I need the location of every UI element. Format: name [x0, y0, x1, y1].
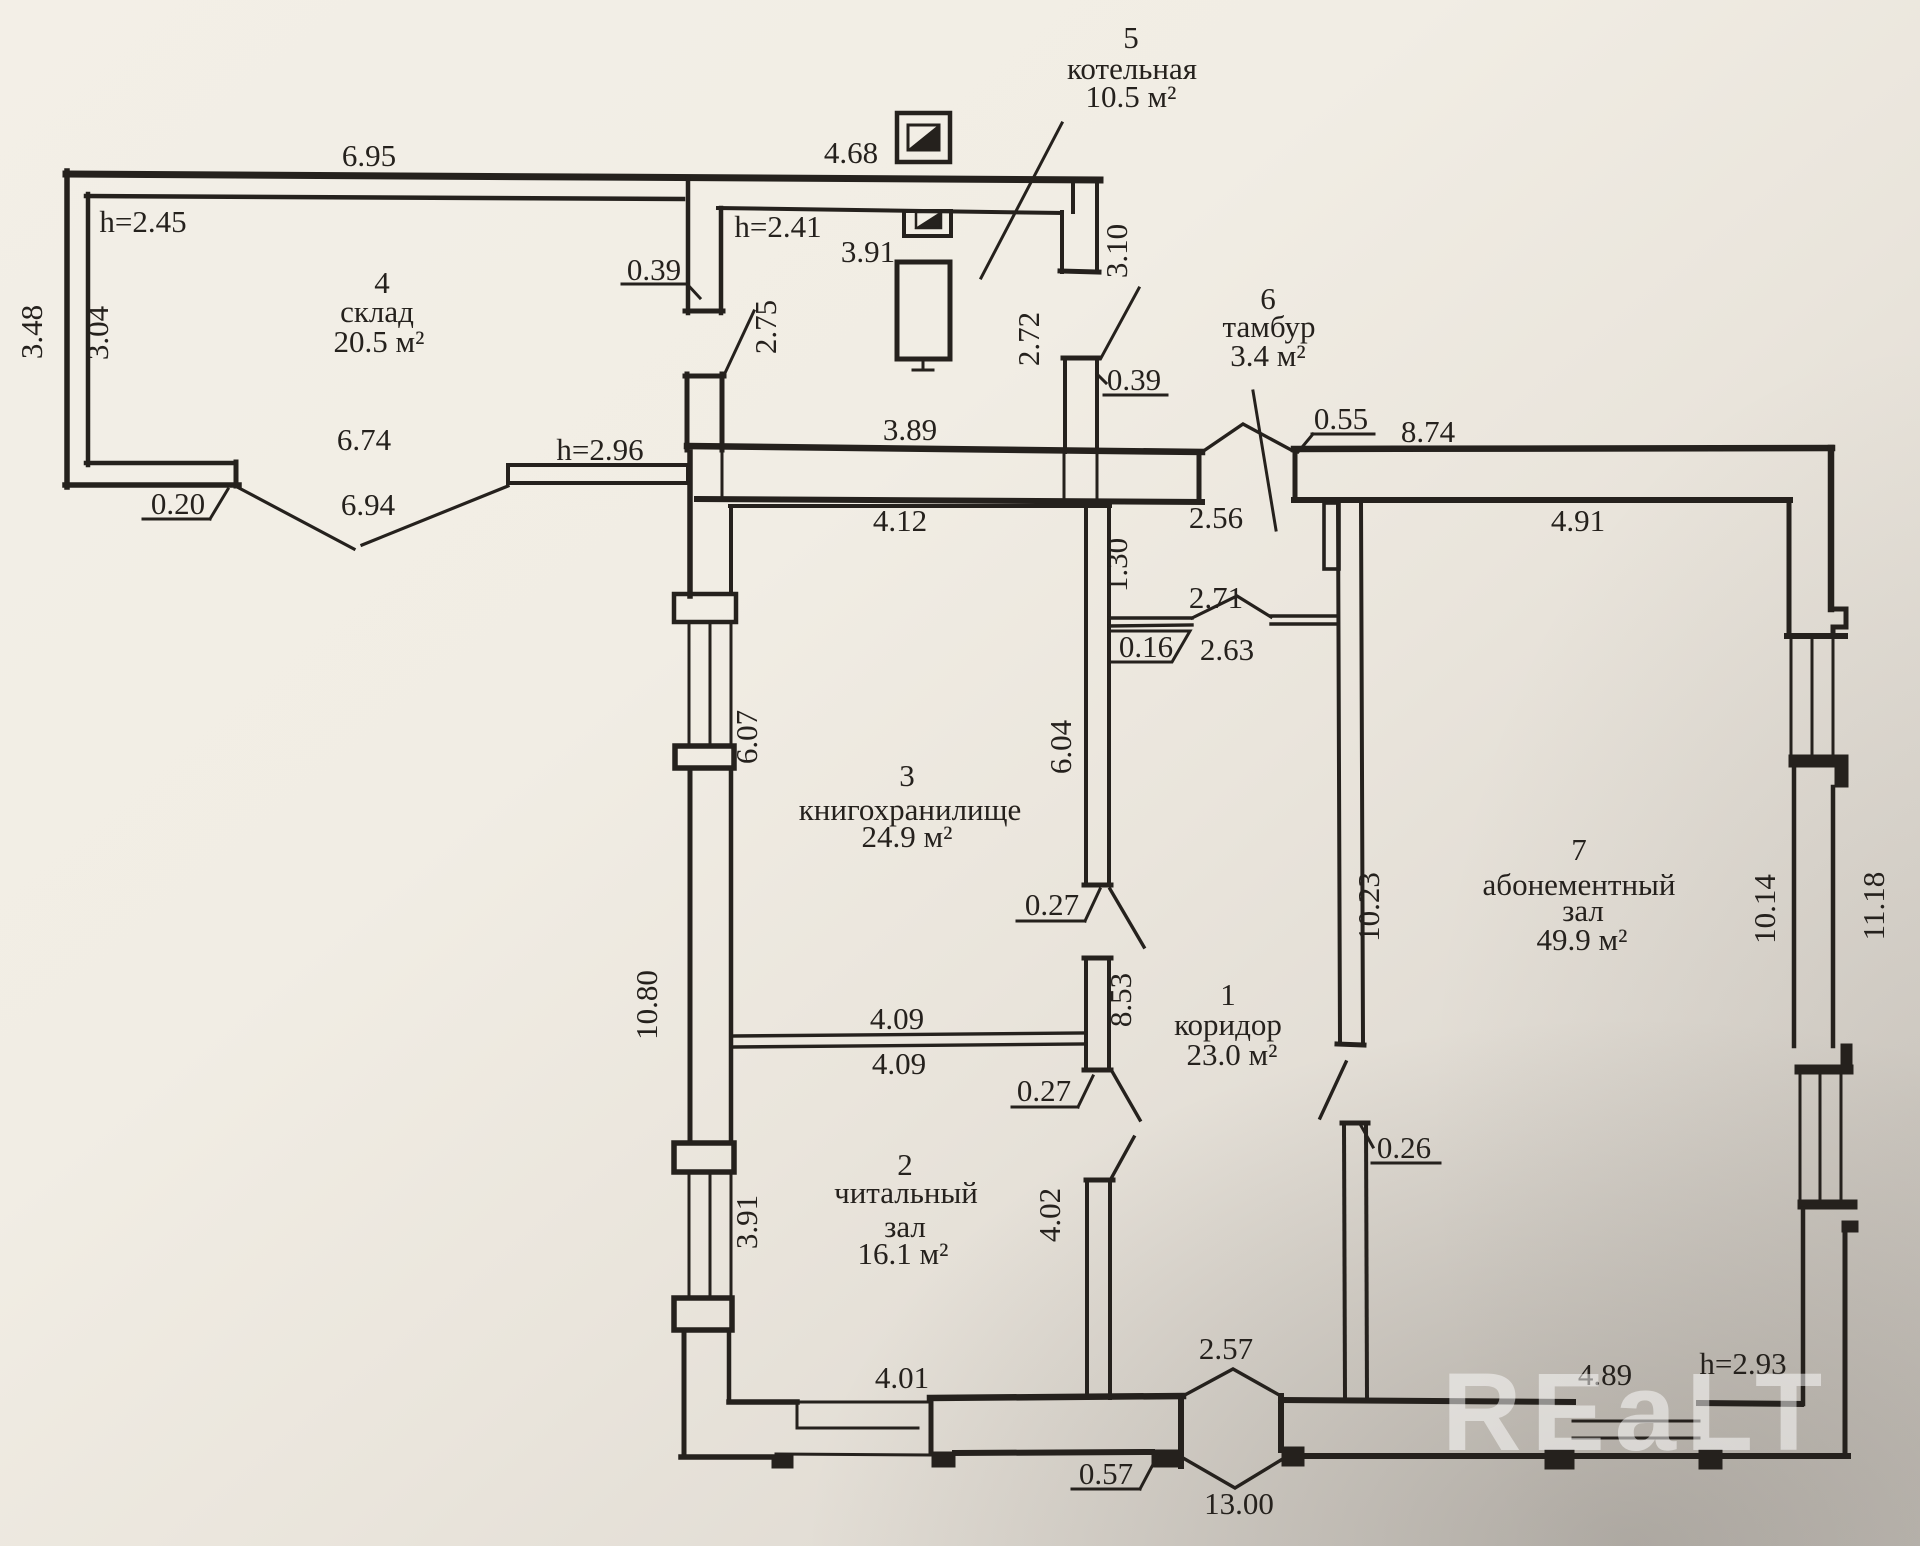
- svg-text:13.00: 13.00: [1204, 1486, 1274, 1521]
- boiler symbol in котельная: [897, 262, 950, 359]
- right wall band lower: [1801, 1209, 1806, 1404]
- svg-text:2.56: 2.56: [1189, 500, 1243, 535]
- left wall window 1 (6.07): [688, 622, 691, 746]
- door break 0.26: [1320, 1062, 1346, 1118]
- котельная inner ceiling line h=2.41: [718, 208, 1062, 213]
- left wall band 10.80: [688, 768, 693, 1143]
- абонементный зал left wall 10.23: [1338, 502, 1340, 1044]
- top right band bottom edge 4.91: [1294, 497, 1790, 503]
- svg-text:11.18: 11.18: [1856, 872, 1891, 941]
- svg-text:4.01: 4.01: [875, 1360, 929, 1395]
- entrance break V 13.00: [1183, 1458, 1281, 1488]
- leader line котельная label: [981, 123, 1062, 278]
- bottom thick band centre: [930, 1396, 1183, 1398]
- абонементный зал bottom inner edge: [1281, 1400, 1573, 1402]
- svg-text:читальный: читальный: [834, 1175, 978, 1210]
- svg-text:h=2.41: h=2.41: [734, 209, 821, 244]
- 0.55 underline: [1312, 433, 1374, 436]
- left wall niche 2 (below склад opening): [685, 374, 690, 450]
- svg-text:2.75: 2.75: [748, 300, 783, 354]
- svg-text:0.57: 0.57: [1079, 1456, 1133, 1491]
- svg-text:4.02: 4.02: [1032, 1188, 1067, 1242]
- vent symbol 1 (above top wall): [897, 113, 950, 162]
- mid top band (outer wall under котельная) top edge: [687, 446, 1202, 452]
- svg-text:1.30: 1.30: [1099, 538, 1134, 592]
- room 4 склад: outer bottom wall: [65, 482, 239, 488]
- svg-text:0.39: 0.39: [1107, 362, 1161, 397]
- svg-text:10.80: 10.80: [629, 970, 664, 1040]
- right wall pilaster B: [1789, 755, 1848, 767]
- room 4 склад: inner left wall line: [86, 194, 91, 465]
- leader 0.55: [1298, 434, 1313, 452]
- right wall section A bottom cap: [1787, 633, 1845, 639]
- left wall pilaster 1: [674, 594, 736, 622]
- door break V at склад opening 6.94: [239, 488, 354, 549]
- тамбур entrance break: [1202, 424, 1293, 452]
- svg-text:49.9 м²: 49.9 м²: [1537, 922, 1628, 957]
- котельная right niche lower wall 0.39: [1063, 358, 1067, 452]
- svg-text:4.09: 4.09: [872, 1046, 926, 1081]
- room 4 склад: bottom wall right cap: [234, 462, 239, 486]
- svg-text:3.4 м²: 3.4 м²: [1230, 338, 1305, 373]
- left wall pilaster 4: [674, 1298, 732, 1330]
- svg-text:4.68: 4.68: [824, 135, 878, 170]
- door break Λ 2.71: [1192, 596, 1271, 618]
- mid top band right cap: [1197, 452, 1202, 502]
- svg-text:0.55: 0.55: [1314, 401, 1368, 436]
- bottom wall right of entrance: [1278, 1396, 1284, 1450]
- svg-text:10.5 м²: 10.5 м²: [1086, 79, 1177, 114]
- svg-text:0.27: 0.27: [1025, 887, 1079, 922]
- коридор left wall stub 8.53: [1084, 956, 1111, 961]
- svg-text:4.91: 4.91: [1551, 503, 1605, 538]
- svg-text:8.74: 8.74: [1401, 414, 1456, 449]
- REaLT watermark: [1442, 1351, 1832, 1474]
- svg-text:6.04: 6.04: [1043, 719, 1078, 774]
- 0.39L underline+leader: [622, 284, 700, 298]
- svg-text:h=2.45: h=2.45: [99, 204, 186, 239]
- left wall window 2 (3.91): [688, 1172, 691, 1298]
- svg-text:3.10: 3.10: [1099, 224, 1134, 278]
- svg-text:3.48: 3.48: [14, 305, 49, 359]
- room 4 склад: inner top wall line: [86, 196, 683, 199]
- svg-text:24.9 м²: 24.9 м²: [862, 819, 953, 854]
- mid top band bottom edge: [697, 499, 1202, 502]
- svg-text:2.71: 2.71: [1189, 580, 1243, 615]
- door break 0.27 lower (two strokes): [1113, 1073, 1140, 1120]
- svg-text:3.89: 3.89: [883, 412, 937, 447]
- 0.16 label box: [1110, 631, 1190, 662]
- right wall band middle: [1792, 767, 1797, 1046]
- svg-text:6.74: 6.74: [337, 422, 392, 457]
- right wall window 1 (10.14 top): [1790, 639, 1793, 753]
- room 4 склад: inner bottom wall line: [86, 461, 232, 466]
- svg-text:h=2.96: h=2.96: [556, 432, 643, 467]
- partition 2.71 right part: [1271, 614, 1337, 617]
- top right band left cap: [1293, 449, 1298, 500]
- right wall: outer top section: [1828, 448, 1835, 609]
- partition 2.71 left part (0.16): [1109, 616, 1192, 619]
- svg-text:3.04: 3.04: [80, 305, 115, 360]
- svg-text:2.63: 2.63: [1200, 632, 1254, 667]
- svg-text:6.95: 6.95: [342, 138, 396, 173]
- svg-text:3: 3: [899, 758, 915, 793]
- абонементный зал bottom outer edge: [1303, 1453, 1848, 1459]
- wall h=2.96 bar: [508, 465, 688, 483]
- svg-text:10.23: 10.23: [1351, 872, 1386, 942]
- 0.27 lower underline+slash: [1012, 1076, 1093, 1107]
- svg-text:0.20: 0.20: [151, 486, 205, 521]
- 3.10 leader: [1101, 288, 1139, 358]
- svg-text:16.1 м²: 16.1 м²: [858, 1236, 949, 1271]
- vent symbol 2 (below top wall): [904, 211, 951, 236]
- svg-text:2.72: 2.72: [1011, 312, 1046, 366]
- 0.26 underline: [1372, 1162, 1440, 1165]
- svg-text:3.91: 3.91: [841, 234, 895, 269]
- 0.57 underline+slash: [1072, 1455, 1158, 1489]
- svg-text:8.53: 8.53: [1103, 973, 1138, 1027]
- svg-text:20.5 м²: 20.5 м²: [334, 324, 425, 359]
- left main wall upper section (below band): [687, 452, 693, 596]
- door break 0.27 upper: [1110, 889, 1144, 947]
- коридор left wall lower 4.02: [1086, 1178, 1113, 1183]
- 2.75 leader: [725, 311, 754, 373]
- left wall pilaster 3: [674, 1143, 734, 1172]
- коридор left wall upper 6.04: [1084, 502, 1088, 884]
- svg-text:0.27: 0.27: [1017, 1073, 1071, 1108]
- тамбур leader line: [1253, 391, 1276, 530]
- svg-text:0.16: 0.16: [1119, 629, 1173, 664]
- mid band crossing lines (тамбур niche walls): [1063, 452, 1066, 500]
- svg-text:7: 7: [1571, 832, 1587, 867]
- 0.39R underline: [1104, 394, 1167, 397]
- svg-text:10.14: 10.14: [1747, 874, 1782, 944]
- svg-text:5: 5: [1123, 20, 1139, 55]
- right wall pilaster C: [1841, 1044, 1852, 1068]
- bottom window 4.89: [1573, 1420, 1699, 1423]
- svg-text:6.07: 6.07: [729, 710, 764, 764]
- room 4 склад: outer top wall + котельная top wall: [66, 174, 1100, 180]
- right wall pilaster A (step out): [1831, 609, 1846, 636]
- 0.27 upper underline+slash: [1017, 889, 1100, 921]
- bottom wall foot 1: [772, 1455, 793, 1468]
- svg-text:2.57: 2.57: [1199, 1331, 1253, 1366]
- svg-text:6.94: 6.94: [341, 487, 396, 522]
- room 4 склад: outer left wall: [64, 171, 70, 487]
- left wall band lower: [682, 1330, 687, 1456]
- right wall inner top section: [1787, 500, 1792, 634]
- right wall pilaster D: [1798, 1200, 1857, 1209]
- dim leader 0.26 tick: [1360, 1124, 1373, 1147]
- top right band 8.74 top edge: [1294, 448, 1832, 449]
- svg-text:0.26: 0.26: [1377, 1130, 1431, 1165]
- книгохранилище top wall thickening 4.12: [730, 504, 1110, 508]
- 0.20 underline+slash: [143, 489, 228, 519]
- котельная right niche upper wall: [1071, 180, 1075, 212]
- svg-text:3.91: 3.91: [729, 1195, 764, 1249]
- svg-text:4.09: 4.09: [870, 1001, 924, 1036]
- niche wall 0.39 left of котельная: [686, 178, 691, 313]
- partition 4.09 between книгохранилище and читальный зал: [734, 1033, 1086, 1036]
- svg-text:23.0 м²: 23.0 м²: [1187, 1037, 1278, 1072]
- left wall pilaster 2: [675, 746, 734, 768]
- bottom outer wall left: [681, 1454, 773, 1460]
- entrance break Λ 2.57: [1183, 1369, 1281, 1396]
- абонементный зал left wall lower stub: [1342, 1121, 1368, 1126]
- svg-text:0.39: 0.39: [627, 252, 681, 287]
- svg-text:REaLT: REaLT: [1442, 1351, 1832, 1474]
- right wall window 2: [1799, 1074, 1802, 1200]
- читальный зал inner bottom wall: [729, 1399, 797, 1405]
- svg-text:4.12: 4.12: [873, 503, 927, 538]
- абонементный зал left wall top flange: [1324, 503, 1339, 569]
- bottom window (читальный зал porch): [797, 1401, 930, 1404]
